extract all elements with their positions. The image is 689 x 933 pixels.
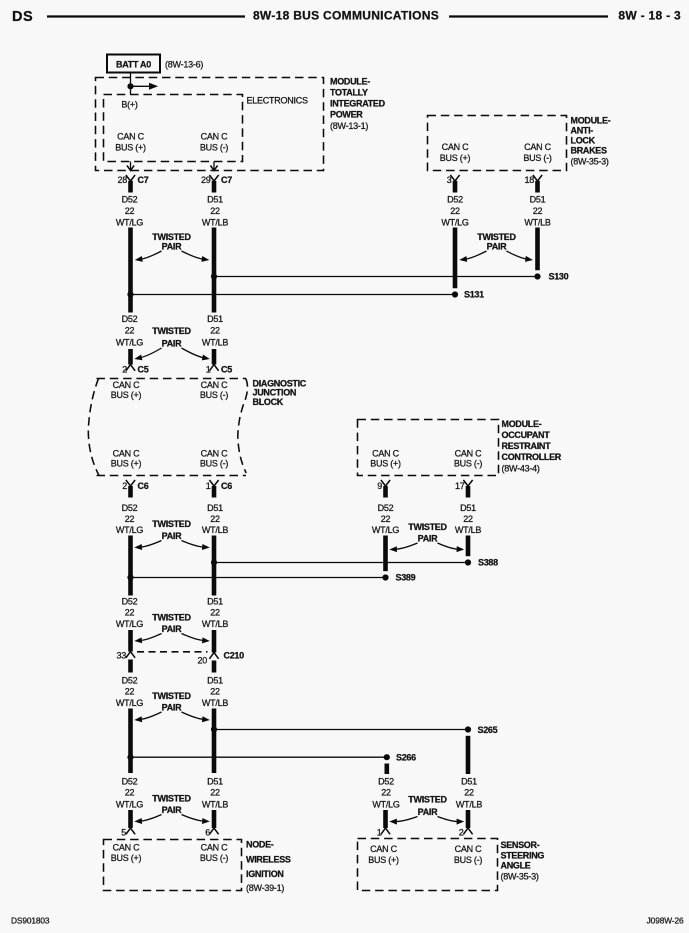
- svg-text:CAN C: CAN C: [201, 380, 229, 390]
- svg-text:WT/LB: WT/LB: [456, 800, 482, 810]
- svg-text:CAN C: CAN C: [117, 132, 145, 142]
- svg-text:D51: D51: [207, 314, 223, 324]
- svg-text:22: 22: [125, 788, 135, 798]
- svg-text:TWISTED: TWISTED: [477, 232, 516, 242]
- svg-text:D51: D51: [207, 597, 223, 607]
- svg-text:TWISTED: TWISTED: [152, 232, 191, 242]
- svg-text:BUS (+): BUS (+): [111, 853, 142, 863]
- svg-text:D52: D52: [447, 195, 463, 205]
- svg-text:22: 22: [210, 514, 220, 524]
- twisted pair label section 2: [134, 326, 210, 360]
- svg-text:C6: C6: [138, 481, 149, 491]
- header title bar: [12, 9, 681, 26]
- svg-text:22: 22: [125, 687, 135, 697]
- battery feed BATT A0: [107, 55, 203, 73]
- svg-text:BUS (+): BUS (+): [115, 143, 146, 153]
- connector NWI pin 5: [121, 828, 135, 838]
- svg-text:D51: D51: [207, 503, 223, 513]
- svg-text:NODE-: NODE-: [246, 840, 274, 850]
- svg-text:WT/LG: WT/LG: [441, 218, 468, 228]
- svg-text:TOTALLY: TOTALLY: [330, 88, 368, 98]
- svg-text:18: 18: [524, 175, 534, 185]
- svg-text:BRAKES: BRAKES: [571, 146, 608, 156]
- connector C6 pin 2: [122, 480, 148, 491]
- svg-text:PAIR: PAIR: [162, 805, 182, 815]
- TIPM inner electronics box: [104, 95, 309, 162]
- svg-text:WT/LG: WT/LG: [116, 218, 143, 228]
- svg-text:D51: D51: [530, 195, 546, 205]
- module SENSOR-STEERING ANGLE box: [358, 839, 545, 891]
- svg-text:BUS (-): BUS (-): [200, 853, 229, 863]
- svg-text:JUNCTION: JUNCTION: [253, 388, 297, 398]
- svg-text:D52: D52: [122, 597, 138, 607]
- svg-text:PAIR: PAIR: [162, 703, 182, 713]
- svg-text:WT/LB: WT/LB: [202, 338, 228, 348]
- svg-text:LOCK: LOCK: [571, 136, 596, 146]
- svg-text:DS901803: DS901803: [11, 916, 50, 926]
- svg-text:6: 6: [205, 828, 210, 838]
- connector ORC pin 9: [377, 480, 390, 491]
- svg-text:ANGLE: ANGLE: [501, 861, 531, 871]
- svg-text:STEERING: STEERING: [501, 851, 545, 861]
- svg-text:BUS (+): BUS (+): [368, 855, 399, 865]
- svg-text:20: 20: [197, 656, 207, 666]
- svg-text:S266: S266: [396, 752, 416, 762]
- svg-text:CAN C: CAN C: [201, 132, 229, 142]
- svg-text:BLOCK: BLOCK: [253, 397, 284, 407]
- svg-text:MODULE-: MODULE-: [502, 419, 542, 429]
- svg-text:WT/LG: WT/LG: [372, 800, 399, 810]
- svg-text:22: 22: [450, 206, 460, 216]
- svg-text:22: 22: [210, 788, 220, 798]
- wire D52 22 WT/LG to SSA: [372, 764, 399, 829]
- svg-text:(8W-13-1): (8W-13-1): [330, 121, 368, 131]
- svg-text:22: 22: [381, 788, 391, 798]
- twisted pair label section 6: [134, 794, 210, 825]
- connector C210 pin 33: [116, 651, 135, 661]
- svg-text:TWISTED: TWISTED: [152, 519, 191, 529]
- svg-text:WT/LG: WT/LG: [116, 619, 143, 629]
- svg-text:J098W-26: J098W-26: [647, 916, 684, 926]
- svg-text:D52: D52: [122, 676, 138, 686]
- wire D51 22 WT/LB to C210: [202, 563, 228, 653]
- svg-text:29: 29: [201, 175, 211, 185]
- connector NWI pin 6: [205, 828, 218, 838]
- svg-text:WT/LG: WT/LG: [372, 525, 399, 535]
- svg-text:CAN C: CAN C: [442, 142, 470, 152]
- svg-text:S388: S388: [478, 558, 498, 568]
- svg-text:S389: S389: [396, 573, 416, 583]
- connector C210 pin 20: [197, 653, 218, 666]
- wire D51 22 WT/LB from ABS: [524, 181, 550, 270]
- svg-text:CAN C: CAN C: [370, 844, 398, 854]
- connector ABS pin 18: [524, 175, 542, 185]
- svg-text:C6: C6: [221, 481, 232, 491]
- svg-text:D51: D51: [207, 777, 223, 787]
- svg-text:CAN C: CAN C: [201, 449, 229, 459]
- wire D51 22 WT/LB from ORC: [455, 486, 481, 556]
- svg-text:CONTROLLER: CONTROLLER: [502, 452, 562, 462]
- svg-text:C5: C5: [138, 365, 149, 375]
- svg-text:CAN C: CAN C: [455, 449, 483, 459]
- wire TIPM CAN C BUS (+) exit arrow: [127, 162, 134, 171]
- svg-text:WT/LB: WT/LB: [202, 218, 228, 228]
- svg-text:WT/LB: WT/LB: [524, 218, 550, 228]
- svg-text:1: 1: [206, 365, 211, 375]
- svg-text:22: 22: [210, 326, 220, 336]
- svg-text:POWER: POWER: [330, 110, 363, 120]
- svg-text:(8W-35-3): (8W-35-3): [571, 157, 609, 167]
- svg-text:WT/LB: WT/LB: [202, 800, 228, 810]
- svg-text:(8W-39-1): (8W-39-1): [246, 883, 284, 893]
- svg-text:BUS (-): BUS (-): [523, 153, 552, 163]
- svg-text:CAN C: CAN C: [113, 843, 141, 853]
- svg-text:PAIR: PAIR: [162, 242, 182, 252]
- footer plate codes: [11, 916, 684, 926]
- svg-text:WT/LB: WT/LB: [202, 698, 228, 708]
- svg-text:IGNITION: IGNITION: [246, 869, 284, 879]
- splice S265 bus link: [211, 725, 498, 735]
- svg-text:D51: D51: [207, 676, 223, 686]
- svg-text:3: 3: [447, 175, 452, 185]
- twisted pair label ABS: [459, 232, 533, 262]
- twisted pair label section 5: [134, 691, 210, 722]
- wire D52 22 WT/LG to C210: [116, 578, 143, 652]
- connector C7 pin 28: [117, 175, 148, 185]
- svg-text:22: 22: [210, 206, 220, 216]
- connector C210 inline dashed interface: [137, 651, 244, 661]
- svg-text:WT/LG: WT/LG: [116, 698, 143, 708]
- connector C5 pin 2: [122, 365, 148, 375]
- twisted pair label ORC: [389, 522, 464, 552]
- svg-text:OCCUPANT: OCCUPANT: [502, 430, 551, 440]
- svg-text:D52: D52: [122, 195, 138, 205]
- svg-text:BUS (+): BUS (+): [440, 153, 471, 163]
- svg-text:(8W-13-6): (8W-13-6): [165, 60, 203, 70]
- svg-text:22: 22: [125, 326, 135, 336]
- svg-text:22: 22: [533, 206, 543, 216]
- connector ORC pin 17: [455, 480, 473, 491]
- svg-text:CAN C: CAN C: [372, 449, 400, 459]
- wire D51 22 WT/LB below C210: [202, 661, 228, 730]
- svg-text:WT/LG: WT/LG: [116, 525, 143, 535]
- svg-text:TWISTED: TWISTED: [152, 794, 191, 804]
- svg-text:TWISTED: TWISTED: [152, 691, 191, 701]
- svg-text:WT/LB: WT/LB: [202, 619, 228, 629]
- wire D51 22 WT/LB below C6: [202, 486, 228, 563]
- twisted pair label section 1 left: [135, 232, 210, 262]
- svg-text:(8W-35-3): (8W-35-3): [501, 872, 539, 882]
- wire D52 22 WT/LG below C6: [116, 486, 143, 578]
- splice S388 bus link: [211, 558, 498, 568]
- svg-text:D52: D52: [378, 503, 394, 513]
- svg-text:BUS (+): BUS (+): [111, 459, 142, 469]
- svg-text:B(+): B(+): [121, 100, 138, 110]
- svg-text:WT/LB: WT/LB: [455, 525, 481, 535]
- svg-text:PAIR: PAIR: [162, 531, 182, 541]
- svg-text:RESTRAINT: RESTRAINT: [502, 441, 552, 451]
- svg-text:ELECTRONICS: ELECTRONICS: [247, 96, 309, 106]
- svg-text:BUS (+): BUS (+): [370, 459, 401, 469]
- svg-text:PAIR: PAIR: [162, 339, 182, 349]
- svg-text:1: 1: [377, 828, 382, 838]
- wire D51 22 WT/LB to NWI: [202, 730, 228, 829]
- connector C5 pin 1: [206, 365, 232, 375]
- svg-text:S131: S131: [464, 290, 484, 300]
- svg-text:MODULE-: MODULE-: [571, 116, 611, 126]
- svg-text:PAIR: PAIR: [487, 242, 507, 252]
- svg-text:2: 2: [459, 828, 464, 838]
- svg-text:CAN C: CAN C: [113, 449, 141, 459]
- svg-text:PAIR: PAIR: [418, 534, 438, 544]
- svg-text:TWISTED: TWISTED: [152, 326, 191, 336]
- wire D51 22 WT/LB to SSA: [456, 736, 482, 828]
- svg-text:D52: D52: [378, 777, 394, 787]
- svg-text:22: 22: [125, 608, 135, 618]
- svg-text:C7: C7: [138, 175, 149, 185]
- svg-text:MODULE-: MODULE-: [330, 77, 370, 87]
- svg-text:WT/LG: WT/LG: [116, 338, 143, 348]
- svg-text:INTEGRATED: INTEGRATED: [330, 99, 386, 109]
- svg-text:2: 2: [122, 481, 127, 491]
- svg-text:BUS (-): BUS (-): [200, 390, 229, 400]
- svg-text:CAN C: CAN C: [113, 380, 141, 390]
- module NODE-WIRELESS IGNITION box: [104, 840, 291, 894]
- svg-text:D51: D51: [207, 195, 223, 205]
- svg-text:1: 1: [206, 481, 211, 491]
- svg-text:WIRELESS: WIRELESS: [246, 855, 291, 865]
- svg-text:BUS (+): BUS (+): [111, 390, 142, 400]
- connector C7 pin 29: [201, 175, 232, 185]
- svg-text:S130: S130: [549, 272, 569, 282]
- connector SSA pin 2: [459, 828, 473, 838]
- svg-text:WT/LB: WT/LB: [202, 525, 228, 535]
- svg-text:TWISTED: TWISTED: [408, 522, 447, 532]
- svg-text:8W-18 BUS COMMUNICATIONS: 8W-18 BUS COMMUNICATIONS: [253, 9, 439, 23]
- svg-text:8W - 18 - 3: 8W - 18 - 3: [618, 9, 681, 23]
- wire D52 22 WT/LG from ORC: [372, 486, 399, 571]
- svg-text:TWISTED: TWISTED: [152, 613, 191, 623]
- wire TIPM CAN C BUS (-) exit arrow: [210, 162, 217, 171]
- svg-text:TWISTED: TWISTED: [408, 795, 447, 805]
- wire D51 22 WT/LB to C5: [202, 277, 228, 365]
- wire D52 22 WT/LG to C5: [116, 295, 143, 365]
- svg-text:ANTI-: ANTI-: [571, 126, 594, 136]
- svg-text:CAN C: CAN C: [201, 843, 229, 853]
- svg-text:WT/LG: WT/LG: [116, 800, 143, 810]
- svg-text:(8W-43-4): (8W-43-4): [502, 464, 540, 474]
- svg-text:22: 22: [125, 514, 135, 524]
- splice S266 bus link: [127, 752, 416, 762]
- wire battery to B(+): [130, 73, 132, 95]
- svg-text:CAN C: CAN C: [455, 844, 483, 854]
- svg-text:PAIR: PAIR: [162, 624, 182, 634]
- svg-text:BATT A0: BATT A0: [116, 60, 151, 70]
- svg-text:BUS (-): BUS (-): [454, 855, 483, 865]
- splice S130 bus link: [211, 272, 569, 282]
- svg-text:DS: DS: [12, 9, 33, 25]
- svg-text:22: 22: [381, 514, 391, 524]
- svg-text:BUS (-): BUS (-): [200, 459, 229, 469]
- svg-text:BUS (-): BUS (-): [200, 143, 229, 153]
- svg-text:C7: C7: [221, 175, 232, 185]
- svg-text:22: 22: [463, 514, 473, 524]
- wire D52 22 WT/LG segment below C7: [116, 181, 143, 295]
- svg-text:33: 33: [116, 651, 126, 661]
- svg-text:PAIR: PAIR: [418, 807, 438, 817]
- svg-text:C5: C5: [221, 365, 232, 375]
- svg-text:17: 17: [455, 481, 465, 491]
- svg-text:D51: D51: [460, 503, 476, 513]
- wire D52 22 WT/LG from ABS: [441, 181, 468, 288]
- connector ABS pin 3: [447, 175, 460, 185]
- svg-text:9: 9: [377, 481, 382, 491]
- svg-text:D51: D51: [461, 777, 477, 787]
- splice S131 bus link: [127, 290, 484, 300]
- svg-text:2: 2: [122, 365, 127, 375]
- wire D51 22 WT/LB segment below C7: [202, 181, 228, 277]
- twisted pair label section 3: [134, 519, 210, 550]
- splice S389 bus link: [127, 573, 415, 583]
- svg-text:D52: D52: [122, 777, 138, 787]
- svg-text:CAN C: CAN C: [524, 142, 552, 152]
- svg-text:28: 28: [117, 175, 127, 185]
- twisted pair label section 4: [134, 613, 210, 644]
- svg-text:22: 22: [210, 608, 220, 618]
- wire D52 22 WT/LG below C210: [116, 660, 143, 758]
- svg-text:SENSOR-: SENSOR-: [501, 840, 540, 850]
- svg-text:5: 5: [121, 828, 126, 838]
- svg-text:BUS (-): BUS (-): [454, 459, 483, 469]
- svg-text:22: 22: [125, 206, 135, 216]
- module OCCUPANT RESTRAINT CONTROLLER box: [358, 419, 562, 476]
- module DIAGNOSTIC JUNCTION BLOCK box (torn edges): [88, 379, 307, 476]
- svg-text:22: 22: [210, 687, 220, 697]
- svg-text:D52: D52: [122, 314, 138, 324]
- svg-text:D52: D52: [122, 503, 138, 513]
- svg-text:C210: C210: [224, 651, 245, 661]
- module TIPM outer box MODULE-TOTALLY INTEGRATED POWER: [96, 77, 386, 171]
- connector C6 pin 1: [206, 480, 232, 491]
- wire D52 22 WT/LG to NWI: [116, 757, 143, 828]
- twisted pair label SSA: [389, 795, 464, 825]
- module ANTI-LOCK BRAKES box: [428, 116, 611, 171]
- node B(+) junction dot with flow arrow: [127, 83, 158, 90]
- connector SSA pin 1: [377, 828, 390, 838]
- svg-text:S265: S265: [478, 725, 498, 735]
- svg-text:22: 22: [464, 788, 474, 798]
